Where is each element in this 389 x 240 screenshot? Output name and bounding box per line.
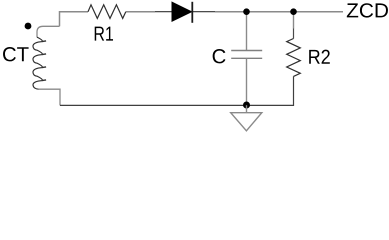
wire bottom rail bbox=[60, 76, 294, 105]
phasing dot bbox=[25, 23, 32, 30]
resistor R2 bbox=[287, 39, 301, 77]
diode cathode bar bbox=[191, 2, 193, 23]
ground symbol bbox=[231, 113, 262, 131]
wire capacitor branch lower bbox=[246, 58, 248, 105]
label CT bbox=[3, 47, 29, 61]
diode D1 bbox=[172, 2, 192, 21]
transformer CT winding bottom hook bbox=[39, 89, 60, 105]
wire top rail from R1 to diode bbox=[126, 11, 155, 13]
wire capacitor branch upper bbox=[246, 12, 248, 51]
resistor R1 bbox=[88, 5, 126, 19]
capacitor C top plate bbox=[231, 50, 262, 52]
label R2 bbox=[309, 50, 330, 64]
coil tick 4 bbox=[42, 79, 46, 82]
junction node ground bbox=[243, 102, 250, 109]
wire top rail from diode to ZCD bbox=[215, 11, 343, 13]
label ZCD bbox=[347, 3, 388, 17]
transformer CT winding top hook bbox=[37, 26, 60, 37]
diode anode lead bbox=[155, 11, 172, 13]
transformer CT winding coil bbox=[33, 37, 43, 89]
label C bbox=[213, 49, 226, 63]
label R1 bbox=[95, 27, 113, 41]
junction node diode-C bbox=[243, 8, 250, 15]
coil tick 3 bbox=[42, 66, 46, 69]
capacitor C bottom plate bbox=[231, 57, 262, 59]
diode cathode lead bbox=[192, 11, 215, 13]
coil tick 2 bbox=[42, 53, 46, 56]
junction node C-R2 bbox=[290, 8, 297, 15]
wire R2 branch upper bbox=[293, 12, 295, 29]
resistor R2 top pin lead bbox=[293, 29, 295, 39]
wire top rail left segment bbox=[60, 12, 89, 27]
wire ground stub bbox=[246, 105, 248, 113]
coil tick 1 bbox=[42, 40, 46, 43]
